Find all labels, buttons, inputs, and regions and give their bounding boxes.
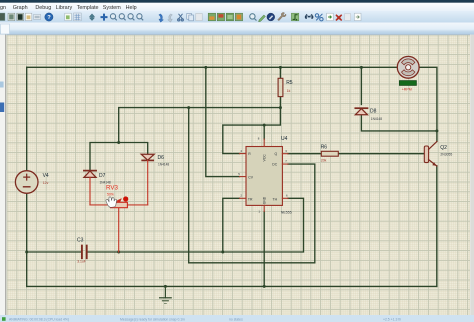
svg-text:2N3055: 2N3055 [440,152,452,156]
svg-text:V4: V4 [43,173,49,179]
junction on VCC rail at CV branch [204,66,207,69]
svg-text:Help: Help [126,5,137,11]
svg-text:GND: GND [262,196,266,204]
wire C3 rail (TH/TR net) [27,198,304,252]
svg-text:3.1uF: 3.1uF [77,259,86,263]
pale band under toolbar [0,23,474,35]
svg-text:VCC: VCC [262,154,266,162]
diode D7 [84,171,111,205]
svg-text:Message(s) ready for simula: Message(s) ready for simulation snap 0.1… [120,317,185,321]
svg-text:+RPM: +RPM [402,87,412,91]
wire pin8 tap [263,125,265,139]
wire DC (pin7) long route [189,108,315,263]
svg-text:ANIMATING: 00:00:08.3 (CPU lo: ANIMATING: 00:00:08.3 (CPU load 4%) [9,317,69,321]
svg-text:R6: R6 [321,144,328,150]
svg-text:RV3: RV3 [106,184,118,191]
junction V4 negative to C3 rail [25,251,28,254]
motor (DC motor with RPM display) [397,56,419,91]
svg-text:Q: Q [275,152,278,156]
junction discharge net at DC drop [187,106,190,109]
svg-text:no states: no states [229,317,243,321]
wire top rail VCC [27,66,398,68]
svg-text:System: System [103,5,121,11]
junction Q2 collector / D8 node [435,129,438,132]
wire D8 branch [361,67,437,131]
svg-text:TR: TR [248,197,253,201]
svg-text:D6: D6 [158,155,165,161]
junction wiper to C3 rail [117,251,120,254]
junction ground symbol on rail [164,285,167,288]
svg-text:1N4148: 1N4148 [371,117,382,121]
wire emitter down [436,166,438,287]
transistor Q2 2N3055 [424,142,452,167]
svg-text:12v: 12v [43,181,49,185]
menu bar [0,3,474,11]
svg-text:C3: C3 [77,238,84,244]
svg-text:Template: Template [77,5,99,11]
resistor R6 [321,144,339,162]
svg-text:gn: gn [0,5,6,11]
svg-text:Q2: Q2 [440,145,447,151]
diode D6 [141,154,169,205]
wire D6 D7 top bar [90,143,148,171]
left edge strip [0,35,6,316]
svg-text:+2.5 +1.3 th: +2.5 +1.3 th [383,317,401,321]
svg-text:Library: Library [56,5,73,11]
toolbar [0,11,474,23]
wire TR branch down to C3 rail [223,198,240,252]
svg-text:D8: D8 [370,108,377,114]
wire Q output to R6 to Q2 base [288,153,424,155]
wire R5 branch down to DC node [223,67,281,153]
wire left vertical from top rail to V4 and down to bottom rail [26,67,28,286]
svg-text:20k: 20k [321,159,327,163]
svg-text:?: ? [47,15,51,21]
junction TR to C3 rail [221,251,224,254]
svg-text:TH: TH [273,197,278,201]
svg-text:U4: U4 [281,136,288,142]
junction pin8 VCC tap [263,124,266,127]
resistor R5 [278,78,293,96]
junction pin1 on ground rail [263,285,266,288]
capacitor C3 [77,238,87,264]
wire bottom ground rail [27,285,437,287]
svg-text:CV: CV [248,176,253,180]
svg-text:Debug: Debug [35,5,51,11]
svg-text:1N4148: 1N4148 [158,162,169,166]
svg-text:Graph: Graph [13,5,28,11]
mouse hand cursor [106,197,117,208]
ground [160,286,172,303]
diode D8 [355,108,382,121]
svg-text:D7: D7 [99,173,106,179]
wire CV branch [206,67,240,176]
svg-text:R5: R5 [286,80,293,86]
wire pin1 ground drop [263,212,265,287]
svg-text:NE555: NE555 [281,210,292,214]
wire motor to collector [419,67,437,141]
battery V4 [15,171,49,194]
svg-text:50%: 50% [107,192,114,196]
pin stubs [240,139,289,212]
svg-text:DC: DC [272,163,277,167]
potentiometer RV3 (selected, red) [90,184,148,252]
status bar [0,315,474,322]
junction diode top bar [117,141,120,144]
wire mid horizontal node R5-bottom to D-network [119,108,281,143]
svg-text:1k: 1k [287,89,291,93]
junction on VCC rail at D8 [360,66,363,69]
right edge strip [470,35,474,316]
window chrome: title bar sliver [0,0,474,3]
junction node R5 bottom / discharge net [279,106,282,109]
op-amp/timer U4 NE555 [238,136,291,214]
junction on VCC rail at R5 [279,66,282,69]
